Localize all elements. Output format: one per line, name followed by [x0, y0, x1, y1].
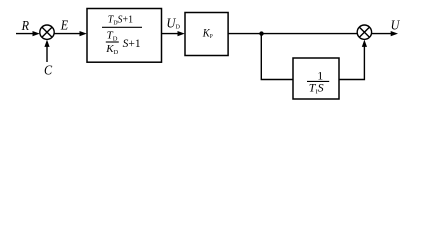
- wire R input with arrow: [16, 31, 40, 36]
- summing junction S1: [40, 25, 54, 39]
- wire KP output to summing junction S2: [228, 33, 357, 35]
- fraction bar: [307, 80, 329, 82]
- block KP: [185, 13, 228, 56]
- block 1/(TI S): [293, 58, 339, 99]
- svg-text:S+1: S+1: [123, 38, 141, 50]
- svg-text:U: U: [391, 18, 401, 33]
- main fraction bar: [102, 26, 142, 28]
- svg-text:E: E: [60, 18, 69, 33]
- svg-text:C: C: [44, 63, 53, 78]
- svg-text:TDS+1: TDS+1: [108, 14, 133, 26]
- wire E with arrow into block G1: [54, 31, 87, 36]
- block G1 (TDS+1)/((TD/KD)S+1): [87, 9, 162, 63]
- wire integrator output up into S2 with arrow: [339, 40, 367, 80]
- svg-text:R: R: [21, 19, 30, 34]
- wire U output with arrow: [372, 31, 398, 36]
- junction dot: [259, 31, 263, 35]
- wire branch down to integrator: [261, 34, 292, 80]
- wire UD with arrow into block KP: [162, 31, 185, 36]
- wire C input with arrow: [44, 40, 49, 62]
- summing junction S2: [357, 25, 371, 39]
